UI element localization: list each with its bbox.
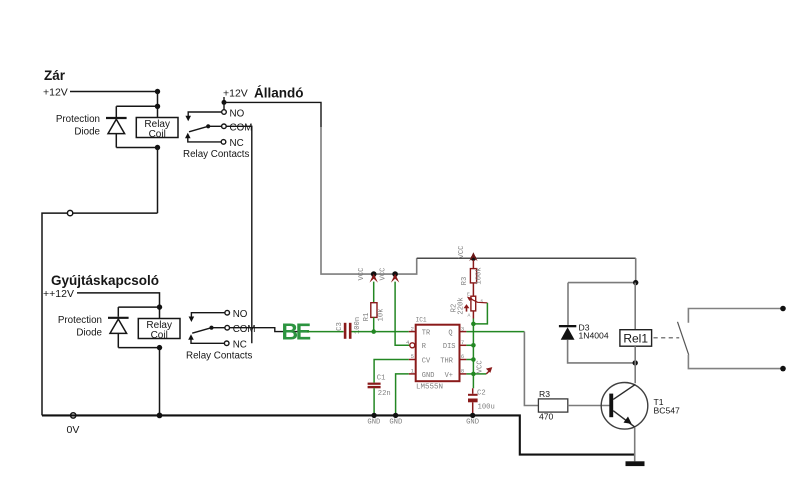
label D3 [579, 323, 590, 333]
svg-text:NO: NO [230, 108, 245, 119]
label R1 [363, 313, 371, 322]
svg-text:COM: COM [230, 123, 253, 134]
svg-text:Q: Q [448, 329, 452, 337]
svg-text:Zár: Zár [44, 68, 66, 83]
svg-text:GND: GND [367, 419, 380, 427]
supply VCC arrow (reset pin) [380, 267, 400, 283]
svg-text:+12V: +12V [223, 88, 248, 100]
wire CV to C1 [374, 360, 409, 383]
relay K1 contact NO [185, 102, 244, 121]
wire GND pin to rail [396, 374, 409, 414]
svg-text:E: E [467, 292, 470, 298]
wire coil K1 vertical [157, 92, 159, 119]
wire VCC rail to D3 branch [568, 282, 636, 284]
junction coil/diode bottom [155, 145, 160, 150]
label GND (C2) [466, 419, 479, 427]
wire TR node to IC1 pin 2 [374, 331, 416, 333]
label 100k [476, 267, 484, 284]
svg-text:NC: NC [230, 138, 244, 149]
svg-text:220k: 220k [458, 297, 466, 314]
svg-text:BC547: BC547 [654, 405, 680, 415]
label Protection Diode (Zár) [56, 114, 101, 138]
switch contact bottom [688, 355, 783, 369]
wire R2 bottom to junction [472, 311, 474, 324]
wire C3 to TR node [352, 331, 374, 333]
wire top feed (Állandó to VCC rail) [321, 127, 417, 274]
svg-text:R3: R3 [539, 389, 550, 399]
svg-text:470: 470 [539, 411, 554, 421]
label R2 [451, 304, 459, 313]
wire diode D1 top branch [116, 105, 157, 107]
relay K1 contact NC [185, 133, 244, 149]
svg-text:DIS: DIS [443, 343, 456, 351]
label C3 [336, 322, 344, 331]
diode D3 1N4004 [559, 325, 576, 340]
svg-text:Coil: Coil [149, 129, 166, 140]
wire ++12V to relay coil K2 [77, 293, 160, 319]
svg-text:VCC: VCC [380, 267, 388, 281]
wire R2 wiper loop [473, 303, 487, 324]
svg-text:0V: 0V [67, 424, 80, 436]
svg-text:100k: 100k [476, 267, 484, 284]
resistor R3 100k [470, 260, 476, 296]
diode D1 protection (Zár relay) [106, 106, 127, 147]
label GND (C1) [367, 419, 380, 427]
junction +12V Állandó [222, 97, 227, 105]
label 100n [354, 317, 362, 334]
svg-text:NC: NC [233, 340, 247, 351]
connector pad on row [67, 210, 72, 215]
wire D3 bottom lead to coil bottom [568, 340, 636, 363]
svg-text:THR: THR [440, 357, 453, 365]
svg-text:GND: GND [389, 419, 402, 427]
wire coil K1 to ignition row [157, 148, 159, 214]
wire K1 COM down to K2 NC [226, 126, 252, 343]
wire VCC node to relay driver supply [417, 257, 636, 259]
svg-text:VCC: VCC [476, 360, 484, 374]
node Zár title [44, 68, 66, 83]
wire net BE to C3 [307, 331, 344, 333]
svg-text:Diode: Diode [76, 328, 102, 339]
resistor R1 [371, 282, 377, 332]
capacitor C3 [344, 323, 352, 339]
svg-text:1N4004: 1N4004 [579, 331, 609, 341]
junction C1 on rail [371, 413, 376, 418]
label GND (IC pin) [389, 419, 402, 427]
wire emitter to ground [634, 428, 636, 462]
label C2 [477, 390, 486, 398]
svg-text:C2: C2 [477, 390, 486, 398]
IC1 pin stub THR pin 6 [460, 359, 467, 361]
switch contact top [688, 309, 783, 323]
wire Rel1 top lead [634, 283, 636, 330]
net BE label [282, 319, 311, 345]
relay coil K1 box [136, 118, 178, 140]
relay K2 contact NO [189, 309, 248, 322]
junction Rel1 bottom [633, 360, 638, 365]
wire DIS to timing node [466, 343, 475, 348]
wire V+ to node [466, 372, 475, 377]
label 220k [458, 297, 466, 314]
svg-text:+12V: +12V [43, 87, 68, 99]
wire corner down to Rel1 node [635, 258, 637, 282]
wire diode D2 bottom branch [118, 347, 159, 349]
inversion bubble pin 4 [410, 343, 415, 348]
wire K2 COM to BE (trigger) [230, 328, 309, 332]
IC1 pin stub CV pin 5 [409, 359, 416, 361]
label Relay Contacts (K1) [183, 149, 250, 160]
label 100u [478, 404, 495, 412]
svg-text:A: A [468, 312, 471, 318]
wire +12V to relay coil K1 [70, 91, 158, 93]
node Gyújtáskapcsoló title [51, 273, 159, 288]
svg-text:R3: R3 [461, 277, 469, 286]
wire Állandó +12V going right then down [224, 102, 321, 127]
junction coil K2 / diode top [157, 304, 162, 309]
IC op U IC1 LM555N box [416, 316, 460, 391]
relay K2 contact COM [192, 324, 255, 335]
label 10k [378, 309, 386, 322]
relay K2 contact NC [188, 334, 247, 350]
svg-text:C1: C1 [377, 375, 386, 383]
wire D3 top lead [567, 283, 569, 325]
relay Rel1 [620, 330, 652, 347]
resistor R3 470 [538, 389, 567, 421]
svg-text:Relay Contacts: Relay Contacts [186, 351, 253, 362]
supply VCC arrow (R1) [358, 267, 378, 283]
label Protection Diode (ignition) [58, 315, 103, 339]
junction on 0V rail [157, 413, 163, 419]
svg-text:Coil: Coil [151, 330, 168, 341]
junction on +12V at coil top [155, 89, 160, 94]
wire Q output [466, 331, 524, 333]
supply VCC arrow (R3 top) [458, 245, 478, 261]
svg-text:TR: TR [422, 329, 431, 337]
svg-text:BE: BE [282, 319, 311, 345]
svg-text:10k: 10k [378, 309, 386, 322]
svg-text:C3: C3 [336, 322, 344, 331]
wire THR to timing node [466, 357, 475, 362]
svg-text:Rel1: Rel1 [623, 331, 648, 345]
wire Q output down to R3 [524, 332, 538, 406]
label BC547 [654, 405, 680, 415]
terminal dot top [780, 306, 786, 312]
ground symbol (emitter) [626, 461, 645, 466]
wire diode D1 bottom branch [116, 147, 157, 149]
label 22n [378, 390, 391, 398]
svg-text:Gyújtáskapcsoló: Gyújtáskapcsoló [51, 273, 159, 288]
wire diode D2 top branch [118, 306, 159, 308]
diode D2 protection (ignition relay) [108, 307, 129, 348]
svg-text:Állandó: Állandó [254, 86, 304, 101]
label T1 [654, 397, 664, 407]
svg-text:GND: GND [422, 372, 435, 380]
dashed link Rel1 to switch [654, 337, 680, 339]
switch lever [678, 322, 689, 355]
terminal dot bottom [780, 366, 786, 372]
label 1N4004 [579, 331, 609, 341]
svg-text:2: 2 [411, 325, 414, 332]
svg-text:++12V: ++12V [43, 288, 74, 300]
junction coil K2 bottom [157, 345, 162, 350]
svg-text:22n: 22n [378, 390, 391, 398]
IC1 pin stub Q pin 3 [460, 331, 467, 333]
junction coil/diode top [155, 104, 160, 109]
svg-text:NO: NO [233, 309, 248, 320]
node +12V Állandó [223, 86, 304, 101]
svg-text:IC1: IC1 [416, 316, 427, 323]
IC1 pin numbers [406, 325, 464, 374]
IC1 pin stub DIS pin 7 [460, 344, 467, 346]
svg-text:COM: COM [233, 324, 256, 335]
relay coil K2 box [138, 319, 180, 341]
svg-text:s: s [480, 299, 483, 304]
node 0V [67, 413, 80, 436]
svg-text:Protection: Protection [56, 114, 100, 125]
wire coil K2 to 0V rail [159, 348, 161, 416]
svg-text:Protection: Protection [58, 315, 102, 326]
svg-text:GND: GND [466, 419, 479, 427]
junction C2 on rail [470, 413, 475, 418]
node ++12V [43, 288, 74, 300]
svg-text:Relay Contacts: Relay Contacts [183, 149, 250, 160]
label R3 (100k) [461, 277, 469, 286]
wire R3 to base [568, 405, 610, 407]
IC1 pin names [422, 329, 456, 380]
svg-text:LM555N: LM555N [416, 384, 443, 392]
junction GND pin on rail [393, 413, 398, 418]
svg-text:R1: R1 [363, 313, 371, 322]
label C1 [377, 375, 386, 383]
IC1 pin stub V+ pin 8 [460, 373, 467, 375]
IC1 pin stub GND pin 1 [409, 373, 416, 375]
capacitor C2 100u [468, 388, 478, 414]
node +12V (Zár) [43, 87, 68, 99]
supply VCC arrow (V+ diagonal) [473, 360, 492, 374]
svg-text:100u: 100u [478, 404, 495, 412]
wire row to left rail [42, 213, 158, 415]
capacitor C1 [368, 383, 381, 415]
svg-text:Diode: Diode [74, 127, 100, 138]
junction VCC/Rel1 [633, 280, 638, 285]
label Relay Contacts (K2) [186, 351, 253, 362]
relay K1 contact COM [189, 123, 252, 134]
svg-text:VCC: VCC [358, 267, 366, 281]
svg-text:VCC: VCC [458, 245, 466, 259]
wire VCC to IC1 pin 4 (R) [395, 282, 409, 346]
svg-text:CV: CV [422, 357, 431, 365]
wire Rel1 bottom lead [634, 346, 636, 383]
transistor T1 BC547 [601, 383, 648, 430]
wire 0V ground rail [42, 415, 635, 454]
junction node TR/R1 [371, 329, 376, 334]
trimmer R2 220k [464, 292, 488, 319]
junction R2/wiper [471, 322, 476, 327]
wire timing node vertical to THR/V+ [472, 324, 474, 388]
svg-text:V+: V+ [445, 372, 453, 380]
